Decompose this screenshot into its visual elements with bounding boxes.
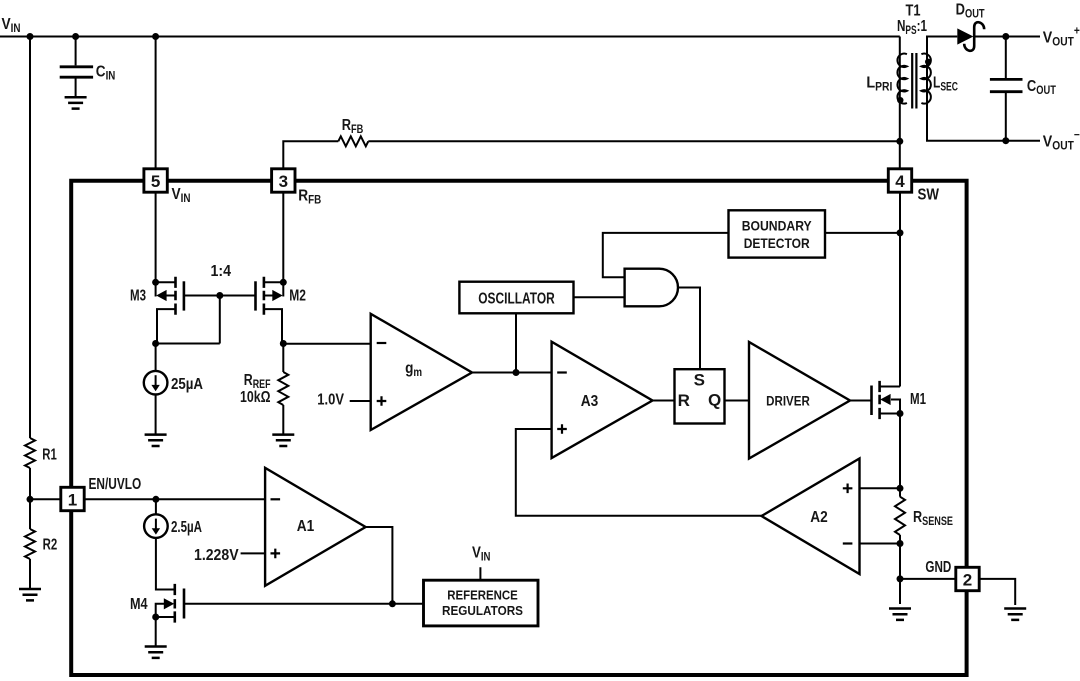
- svg-text:M3: M3: [130, 288, 146, 305]
- svg-text:2.5µA: 2.5µA: [171, 519, 202, 536]
- svg-text:Q: Q: [708, 391, 721, 410]
- svg-text:SW: SW: [918, 187, 940, 204]
- svg-text:DETECTOR: DETECTOR: [744, 235, 810, 251]
- svg-text:A3: A3: [581, 393, 599, 410]
- svg-text:R: R: [678, 391, 690, 410]
- svg-text:A2: A2: [810, 509, 828, 526]
- svg-text:BOUNDARY: BOUNDARY: [742, 218, 813, 234]
- svg-text:REFERENCE: REFERENCE: [447, 588, 518, 603]
- svg-text:1: 1: [68, 490, 77, 509]
- svg-text:DRIVER: DRIVER: [766, 392, 810, 408]
- svg-text:M4: M4: [130, 596, 148, 613]
- svg-text:1:4: 1:4: [211, 263, 232, 280]
- svg-text:R1: R1: [42, 447, 57, 464]
- svg-text:M1: M1: [910, 391, 926, 408]
- svg-text:1.228V: 1.228V: [194, 547, 239, 564]
- svg-text:T1: T1: [906, 3, 921, 20]
- svg-text:GND: GND: [925, 559, 951, 576]
- svg-text:EN/UVLO: EN/UVLO: [89, 476, 142, 493]
- svg-text:S: S: [694, 371, 705, 390]
- svg-text:5: 5: [151, 172, 160, 191]
- svg-text:2: 2: [963, 570, 972, 589]
- svg-text:4: 4: [895, 172, 905, 191]
- svg-text:REGULATORS: REGULATORS: [442, 603, 523, 618]
- svg-text:3: 3: [279, 172, 288, 191]
- svg-text:25µA: 25µA: [171, 376, 203, 393]
- svg-text:OSCILLATOR: OSCILLATOR: [478, 291, 555, 308]
- svg-text:1.0V: 1.0V: [317, 392, 344, 409]
- svg-text:M2: M2: [289, 288, 306, 305]
- svg-text:R2: R2: [43, 537, 58, 554]
- svg-text:A1: A1: [297, 518, 315, 535]
- svg-text:10kΩ: 10kΩ: [240, 389, 271, 406]
